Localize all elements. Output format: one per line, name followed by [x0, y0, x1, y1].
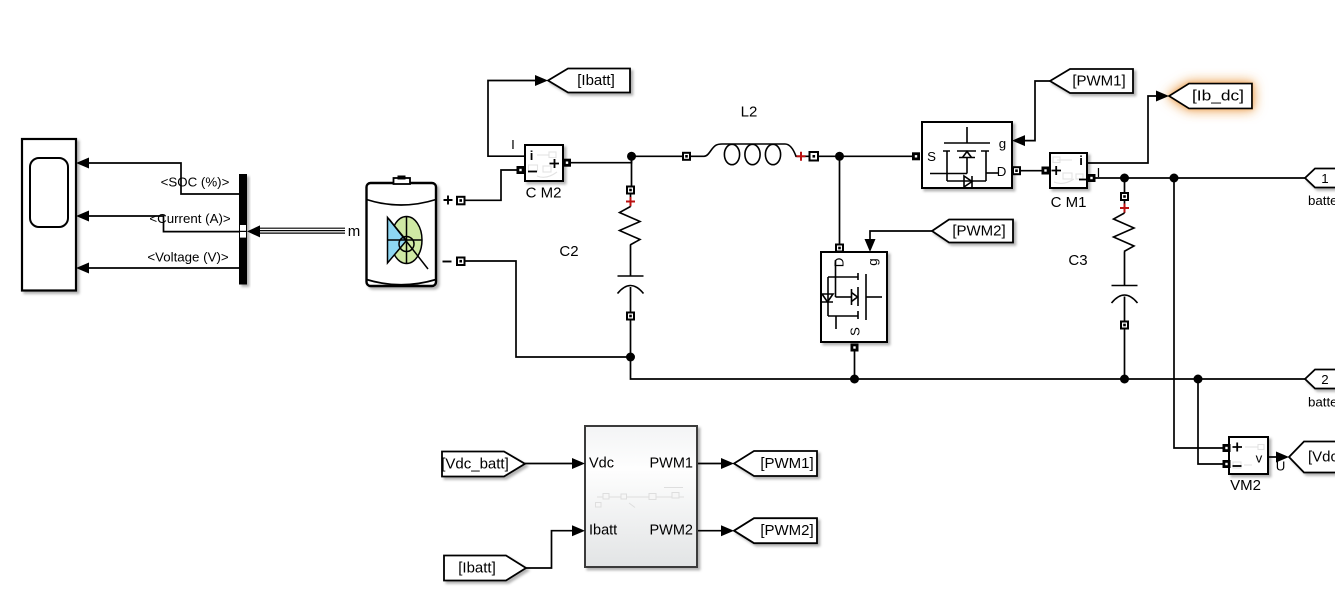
svg-text:[Vdc_batt]: [Vdc_batt]: [441, 456, 509, 473]
svg-text:v: v: [1256, 451, 1263, 466]
svg-text:C M2: C M2: [526, 184, 562, 201]
svg-text:g: g: [999, 136, 1006, 151]
svg-text:S: S: [848, 327, 863, 336]
svg-text:battery: battery: [1308, 395, 1335, 410]
svg-text:I: I: [511, 137, 515, 152]
svg-text:<Current (A)>: <Current (A)>: [149, 211, 231, 226]
svg-text:battery: battery: [1308, 193, 1335, 208]
svg-text:S: S: [927, 149, 936, 164]
svg-text:C M1: C M1: [1051, 194, 1087, 211]
svg-text:i: i: [530, 148, 534, 163]
svg-text:VM2: VM2: [1230, 477, 1261, 494]
svg-text:[Ibatt]: [Ibatt]: [577, 72, 615, 89]
svg-text:i: i: [1079, 153, 1083, 168]
svg-text:[PWM1]: [PWM1]: [760, 455, 813, 472]
svg-text:U: U: [1276, 459, 1286, 474]
svg-text:D: D: [997, 164, 1007, 179]
svg-text:Vdc: Vdc: [589, 456, 614, 472]
svg-text:[PWM1]: [PWM1]: [1072, 73, 1125, 90]
svg-text:m: m: [348, 223, 361, 240]
svg-text:C2: C2: [559, 243, 578, 260]
svg-text:g: g: [865, 258, 880, 265]
svg-text:[Vdc_b: [Vdc_b: [1308, 449, 1335, 466]
svg-text:<SOC (%)>: <SOC (%)>: [161, 175, 230, 190]
svg-text:<Voltage (V)>: <Voltage (V)>: [147, 250, 229, 265]
svg-text:[Ibatt]: [Ibatt]: [458, 560, 496, 577]
svg-text:Ibatt: Ibatt: [589, 523, 617, 539]
svg-text:[PWM2]: [PWM2]: [952, 223, 1005, 240]
svg-text:PWM1: PWM1: [650, 456, 694, 472]
svg-text:1: 1: [1321, 171, 1328, 186]
svg-text:C3: C3: [1068, 252, 1087, 269]
svg-text:2: 2: [1321, 372, 1328, 387]
svg-text:[PWM2]: [PWM2]: [760, 522, 813, 539]
svg-text:L2: L2: [741, 104, 758, 121]
svg-text:[Ib_dc]: [Ib_dc]: [1192, 88, 1244, 105]
svg-text:PWM2: PWM2: [650, 523, 694, 539]
svg-text:D: D: [832, 258, 847, 268]
svg-text:I: I: [1097, 165, 1101, 180]
